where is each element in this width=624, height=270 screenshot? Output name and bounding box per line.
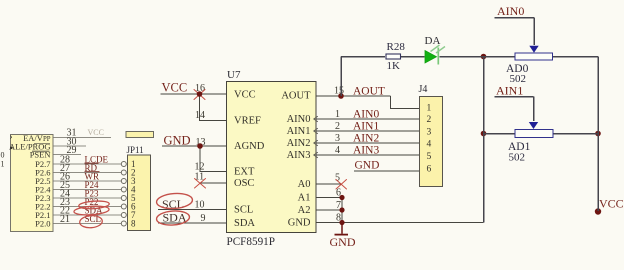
svg-text:AGND: AGND bbox=[234, 141, 265, 152]
svg-text:A1: A1 bbox=[298, 193, 311, 204]
svg-text:A2: A2 bbox=[298, 205, 311, 216]
svg-text:VCC: VCC bbox=[162, 81, 188, 95]
svg-text:5: 5 bbox=[427, 152, 432, 162]
svg-text:VCC: VCC bbox=[88, 128, 104, 137]
svg-text:9: 9 bbox=[201, 213, 206, 224]
svg-text:14: 14 bbox=[195, 110, 205, 121]
svg-text:2: 2 bbox=[335, 121, 340, 132]
svg-text:AIN0: AIN0 bbox=[353, 109, 379, 121]
svg-text:AIN2: AIN2 bbox=[287, 138, 311, 149]
svg-text:1: 1 bbox=[1, 160, 5, 169]
svg-text:U7: U7 bbox=[227, 69, 241, 81]
svg-text:3: 3 bbox=[335, 133, 340, 144]
svg-text:AIN3: AIN3 bbox=[287, 150, 311, 161]
svg-text:P2.0: P2.0 bbox=[35, 219, 50, 229]
svg-text:GND: GND bbox=[164, 134, 191, 148]
svg-text:AOUT: AOUT bbox=[281, 91, 311, 102]
svg-text:AIN1: AIN1 bbox=[496, 84, 523, 98]
svg-text:1: 1 bbox=[427, 104, 432, 114]
svg-text:PCF8591P: PCF8591P bbox=[227, 234, 276, 248]
svg-text:J4: J4 bbox=[419, 84, 428, 95]
svg-text:GND: GND bbox=[288, 218, 311, 229]
svg-text:VCC: VCC bbox=[599, 197, 624, 211]
svg-text:EXT: EXT bbox=[234, 167, 255, 178]
svg-text:›: › bbox=[10, 132, 13, 142]
svg-text:3: 3 bbox=[427, 128, 432, 138]
svg-text:VCC: VCC bbox=[234, 90, 256, 101]
svg-text:4: 4 bbox=[335, 145, 340, 156]
svg-text:AIN0: AIN0 bbox=[287, 114, 311, 125]
svg-text:SDA: SDA bbox=[234, 218, 255, 229]
svg-text:AIN1: AIN1 bbox=[353, 121, 379, 133]
svg-text:1K: 1K bbox=[387, 60, 401, 72]
svg-text:A0: A0 bbox=[298, 179, 311, 190]
svg-text:R28: R28 bbox=[387, 41, 406, 53]
svg-text:0: 0 bbox=[1, 151, 5, 160]
svg-text:502: 502 bbox=[509, 152, 526, 164]
svg-text:21: 21 bbox=[60, 214, 70, 225]
svg-text:JP11: JP11 bbox=[127, 145, 144, 155]
svg-text:4: 4 bbox=[427, 140, 432, 150]
svg-text:10: 10 bbox=[195, 200, 205, 211]
svg-text:AOUT: AOUT bbox=[353, 86, 385, 98]
svg-text:GND: GND bbox=[330, 235, 356, 249]
svg-text:VREF: VREF bbox=[234, 116, 261, 127]
svg-text:AIN3: AIN3 bbox=[353, 145, 379, 157]
svg-text:6: 6 bbox=[427, 165, 432, 175]
svg-text:AIN2: AIN2 bbox=[353, 133, 379, 145]
svg-text:●: ● bbox=[10, 146, 14, 152]
svg-text:SCL: SCL bbox=[234, 205, 253, 216]
svg-text:AIN0: AIN0 bbox=[497, 4, 524, 18]
svg-text:2: 2 bbox=[427, 115, 432, 125]
svg-text:AIN1: AIN1 bbox=[287, 126, 311, 137]
svg-text:OSC: OSC bbox=[234, 178, 254, 189]
svg-text:1: 1 bbox=[335, 109, 340, 120]
svg-text:8: 8 bbox=[131, 219, 136, 229]
svg-text:GND: GND bbox=[355, 160, 380, 172]
